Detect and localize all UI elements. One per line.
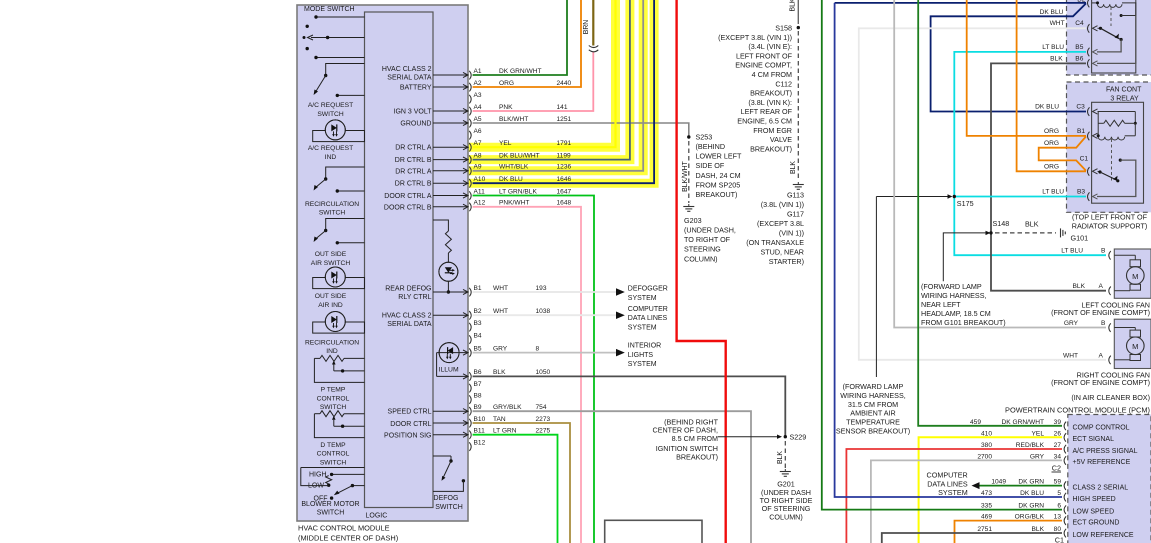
svg-text:(BEHIND: (BEHIND: [696, 142, 726, 151]
svg-text:A8: A8: [474, 152, 482, 159]
svg-text:8.5 CM FROM: 8.5 CM FROM: [672, 434, 718, 443]
wire ORG to relay K2 B1: [967, 0, 1086, 136]
svg-text:AMBIENT AIR: AMBIENT AIR: [850, 409, 895, 418]
svg-text:BLK/WHT: BLK/WHT: [499, 116, 528, 123]
svg-text:(IN AIR CLEANER BOX): (IN AIR CLEANER BOX): [1071, 393, 1150, 402]
P temp control switch potentiometer R1: [314, 357, 320, 359]
svg-text:1236: 1236: [557, 164, 572, 171]
svg-text:1199: 1199: [557, 152, 572, 159]
svg-text:DR CTRL B: DR CTRL B: [395, 157, 432, 164]
svg-text:HIGH SPEED: HIGH SPEED: [1073, 496, 1116, 503]
resistor R3 and LED DS4 to pin B1: [433, 220, 448, 231]
D temp control switch potentiometer R2: [314, 413, 320, 415]
PCM pin HIGH SPEED: [1064, 493, 1066, 502]
splice S175: [953, 195, 956, 198]
svg-text:13: 13: [1054, 514, 1062, 521]
svg-text:2275: 2275: [536, 428, 551, 435]
svg-text:RECIRCULATION: RECIRCULATION: [305, 340, 359, 347]
svg-text:COMP CONTROL: COMP CONTROL: [1073, 425, 1130, 432]
svg-text:B7: B7: [474, 381, 482, 388]
wire A7 YEL 1791: [473, 0, 616, 147]
svg-text:459: 459: [970, 419, 981, 426]
svg-text:410: 410: [981, 430, 992, 437]
svg-text:LT BLU: LT BLU: [1061, 248, 1083, 255]
pin A12: [433, 206, 468, 208]
svg-text:B: B: [1101, 248, 1106, 255]
svg-text:(FORWARD LAMP: (FORWARD LAMP: [921, 282, 982, 291]
wire A4 PNK 141 + inline connector C112: [473, 52, 594, 111]
svg-text:1791: 1791: [557, 140, 572, 147]
wire BLK relay K1 B6 to left fan: [991, 63, 1106, 290]
svg-text:DK GRN: DK GRN: [1018, 479, 1044, 486]
wire WHT relay K1 C4 to right fan: [859, 28, 1106, 360]
svg-text:5: 5: [1057, 490, 1061, 497]
ground G101: [1060, 228, 1062, 237]
svg-text:ORG: ORG: [1044, 128, 1059, 135]
pin B1: [433, 291, 468, 293]
svg-text:(FRONT OF ENGINE COMPT): (FRONT OF ENGINE COMPT): [1051, 378, 1150, 387]
svg-text:REAR DEFOG: REAR DEFOG: [385, 286, 431, 293]
wire B6 BLK 1050 to S229: [473, 376, 786, 436]
wire YEL 410 ECT signal: [919, 437, 1062, 543]
svg-text:DK BLU: DK BLU: [499, 176, 523, 183]
wire ORG jumper B1-C1: [1039, 136, 1086, 170]
wire B5 GRY 8 to interior lights: [473, 352, 616, 354]
svg-text:(EXCEPT 3.8L (VIN 1)): (EXCEPT 3.8L (VIN 1)): [718, 33, 792, 42]
svg-text:80: 80: [1054, 526, 1062, 533]
svg-text:C4: C4: [1075, 20, 1084, 27]
wire DK BLU to relay K1 top pin: [835, 2, 1086, 4]
svg-text:39: 39: [1054, 419, 1062, 426]
svg-text:SWITCH: SWITCH: [435, 504, 463, 511]
svg-text:VALVE: VALVE: [770, 135, 792, 144]
pin B4: [469, 335, 471, 344]
svg-text:BLK: BLK: [1025, 220, 1039, 229]
svg-text:B1: B1: [1077, 128, 1085, 135]
relay K2 switch: [1119, 159, 1122, 162]
svg-text:2273: 2273: [536, 416, 551, 423]
svg-text:B3: B3: [1077, 189, 1085, 196]
svg-text:SYSTEM: SYSTEM: [938, 488, 968, 497]
relay K2 armature: [1111, 139, 1113, 181]
svg-text:PNK/WHT: PNK/WHT: [499, 200, 529, 207]
wire A12 PNK/WHT 1648: [473, 207, 581, 543]
svg-text:A: A: [1099, 352, 1104, 359]
svg-text:WHT: WHT: [1050, 20, 1065, 27]
svg-text:SPEED CTRL: SPEED CTRL: [388, 409, 432, 416]
svg-text:INTERIOR: INTERIOR: [628, 343, 661, 350]
svg-text:DOOR CTRL A: DOOR CTRL A: [384, 193, 432, 200]
svg-text:SYSTEM: SYSTEM: [628, 324, 657, 331]
svg-text:P TEMP: P TEMP: [321, 387, 346, 394]
PCM pin ECT SIGNAL: [1064, 433, 1066, 442]
svg-text:YEL: YEL: [499, 140, 512, 147]
pin A11: [433, 195, 468, 197]
PCM pin +5V REFERENCE: [1064, 456, 1066, 465]
outside air indicator LED DS2: [313, 278, 365, 289]
svg-text:SERIAL DATA: SERIAL DATA: [387, 75, 432, 82]
HVAC control module box: [297, 5, 468, 521]
svg-text:OUT SIDE: OUT SIDE: [315, 251, 347, 258]
PCM pin A/C PRESS SIGNAL: [1064, 445, 1066, 454]
svg-text:HIGH: HIGH: [309, 472, 327, 479]
wire ORG to relay K2 C1: [1017, 0, 1086, 171]
svg-text:(3.4L (VIN E):: (3.4L (VIN E):: [748, 42, 792, 51]
wire A8 DK BLU/WHT 1199: [473, 0, 630, 160]
svg-text:DATA LINES: DATA LINES: [927, 479, 968, 488]
svg-text:SYSTEM: SYSTEM: [628, 295, 657, 302]
relay K1 switch: [1093, 26, 1098, 31]
svg-text:A11: A11: [474, 188, 486, 195]
svg-text:DEFOGGER: DEFOGGER: [628, 286, 668, 293]
svg-text:GRY: GRY: [1064, 320, 1079, 327]
PCM pin ECT GROUND: [1064, 516, 1066, 525]
svg-text:B3: B3: [474, 320, 482, 327]
wire DK GRN 335 low speed: [822, 0, 1062, 510]
svg-text:POWERTRAIN CONTROL MODULE (PCM: POWERTRAIN CONTROL MODULE (PCM): [1005, 406, 1150, 415]
svg-text:YEL: YEL: [1032, 430, 1045, 437]
pin B2: [433, 314, 468, 316]
svg-text:ORG: ORG: [499, 80, 514, 87]
relay K2 FAN CONT 3 RELAY box: [1067, 82, 1151, 212]
svg-text:A: A: [1099, 283, 1104, 290]
svg-text:DK GRN/WHT: DK GRN/WHT: [1002, 419, 1045, 426]
svg-text:RADIATOR SUPPORT): RADIATOR SUPPORT): [1072, 222, 1147, 231]
svg-text:LIGHTS: LIGHTS: [628, 352, 654, 359]
illumination LED DS5 between pins B5 and B6: [437, 352, 468, 354]
svg-text:A7: A7: [474, 140, 482, 147]
svg-text:SWITCH: SWITCH: [320, 459, 347, 466]
svg-text:B1: B1: [474, 285, 482, 292]
svg-text:BLK: BLK: [1032, 526, 1045, 533]
svg-text:193: 193: [536, 285, 547, 292]
svg-text:FROM SP205: FROM SP205: [696, 180, 741, 189]
svg-text:STARTER): STARTER): [769, 257, 804, 266]
svg-text:NEAR LEFT: NEAR LEFT: [921, 300, 961, 309]
svg-text:DK BLU/WHT: DK BLU/WHT: [499, 152, 540, 159]
svg-text:1647: 1647: [557, 188, 572, 195]
svg-text:G101: G101: [1071, 234, 1089, 243]
svg-text:G113: G113: [787, 191, 804, 200]
pin A7: [433, 146, 468, 148]
svg-text:OUT SIDE: OUT SIDE: [315, 293, 347, 300]
svg-text:(TOP LEFT FRONT OF: (TOP LEFT FRONT OF: [1072, 213, 1148, 222]
pin B5: [469, 348, 471, 357]
pin B6: [469, 372, 471, 381]
svg-text:BREAKOUT): BREAKOUT): [750, 89, 792, 98]
pin B10: [433, 422, 468, 424]
svg-text:S148: S148: [993, 219, 1010, 228]
svg-text:WHT/BLK: WHT/BLK: [499, 164, 529, 171]
svg-text:A2: A2: [474, 80, 482, 87]
svg-text:1648: 1648: [557, 200, 572, 207]
pin A6: [469, 131, 471, 140]
svg-text:S175: S175: [957, 199, 974, 208]
splice S148: [989, 231, 992, 234]
svg-text:CONTROL: CONTROL: [317, 451, 350, 458]
svg-text:LOW SPEED: LOW SPEED: [1073, 508, 1115, 515]
module box (cut off, bottom center): [605, 520, 702, 543]
svg-text:POSITION SIG: POSITION SIG: [384, 432, 431, 439]
svg-text:PNK: PNK: [499, 104, 513, 111]
svg-text:TO RIGHT OF: TO RIGHT OF: [684, 235, 731, 244]
svg-text:WIRING HARNESS,: WIRING HARNESS,: [921, 291, 987, 300]
svg-text:BLK: BLK: [790, 161, 797, 174]
svg-text:(FRONT OF ENGINE COMPT): (FRONT OF ENGINE COMPT): [1051, 308, 1150, 317]
svg-text:A5: A5: [474, 116, 482, 123]
PCM box: [1068, 415, 1151, 543]
pin B11: [433, 434, 468, 436]
relay K2 coil + resistor: [1093, 109, 1098, 114]
svg-text:141: 141: [557, 104, 568, 111]
svg-text:1049: 1049: [991, 479, 1006, 486]
ground G203: [683, 206, 694, 208]
svg-text:DR CTRL B: DR CTRL B: [395, 181, 432, 188]
svg-text:DATA LINES: DATA LINES: [628, 315, 668, 322]
PCM pin COMP CONTROL: [1064, 422, 1066, 431]
svg-text:59: 59: [1054, 479, 1062, 486]
svg-text:M: M: [1132, 342, 1138, 351]
svg-text:DR CTRL A: DR CTRL A: [395, 145, 432, 152]
svg-text:STUD, NEAR: STUD, NEAR: [760, 248, 804, 257]
svg-text:380: 380: [981, 442, 992, 449]
svg-text:DK BLU: DK BLU: [1020, 490, 1044, 497]
A/C request indicator LED DS1: [313, 131, 365, 142]
svg-text:DOOR CTRL B: DOOR CTRL B: [384, 204, 432, 211]
svg-text:ENGINE, 6.5 CM: ENGINE, 6.5 CM: [737, 117, 792, 126]
svg-text:S158: S158: [775, 24, 792, 33]
svg-text:1251: 1251: [557, 116, 572, 123]
svg-text:B2: B2: [474, 308, 482, 315]
svg-text:BRN: BRN: [583, 20, 590, 35]
wire ORG/BLK 469 ECT ground: [955, 521, 1063, 543]
svg-text:COLUMN): COLUMN): [684, 254, 718, 263]
svg-text:C1: C1: [1080, 156, 1089, 163]
svg-text:(FORWARD LAMP: (FORWARD LAMP: [843, 382, 904, 391]
A/C request switch S2: [326, 64, 365, 76]
svg-text:M: M: [1132, 272, 1138, 281]
svg-text:6: 6: [1057, 503, 1061, 510]
svg-text:DK BLU: DK BLU: [1040, 9, 1064, 16]
wire LT BLU relay K2 B3: [954, 196, 1086, 198]
svg-text:GRY/BLK: GRY/BLK: [493, 404, 522, 411]
logic block U1: [365, 12, 434, 508]
svg-text:RLY CTRL: RLY CTRL: [398, 294, 431, 301]
pin A10: [433, 182, 468, 184]
highlight band wire A8 DK BLU/WHT: [467, 0, 630, 160]
ground G201: [780, 471, 791, 473]
svg-text:RECIRCULATION: RECIRCULATION: [305, 201, 359, 208]
svg-text:LOW REFERENCE: LOW REFERENCE: [1073, 532, 1134, 539]
svg-text:DK GRN/WHT: DK GRN/WHT: [499, 68, 542, 75]
wire DK GRN 1049 class 2 serial: [980, 485, 1063, 487]
svg-text:LOGIC: LOGIC: [366, 513, 388, 520]
svg-text:B4: B4: [474, 332, 482, 339]
wire A5 BLK/WHT 1251 to S253: [473, 123, 689, 137]
svg-text:8: 8: [536, 345, 540, 352]
pin A3: [469, 95, 471, 104]
svg-text:DK BLU: DK BLU: [1035, 104, 1059, 111]
svg-text:C2: C2: [1052, 464, 1061, 473]
pin B8: [469, 395, 471, 404]
svg-text:A4: A4: [474, 104, 482, 111]
svg-text:ORG: ORG: [1044, 140, 1059, 147]
svg-text:IND: IND: [326, 348, 338, 355]
wire DK GRN/WHT 459 comp control: [918, 0, 1062, 426]
ground G113/G117: [793, 184, 804, 186]
recirculation indicator LED DS3: [313, 322, 365, 333]
svg-text:A1: A1: [474, 68, 482, 75]
wire LT BLU relay K1 B5: [954, 52, 1106, 255]
blower motor switch S5: [301, 467, 365, 469]
pin B3: [469, 323, 471, 332]
PCM pin LOW REFERENCE: [1064, 529, 1066, 538]
svg-text:SENSOR BREAKOUT): SENSOR BREAKOUT): [836, 427, 910, 436]
svg-text:+5V REFERENCE: +5V REFERENCE: [1073, 459, 1131, 466]
wire RED/BLK 380 A/C press signal: [846, 449, 1062, 543]
wire A10 DK BLU 1646: [473, 0, 654, 183]
svg-text:2751: 2751: [977, 526, 992, 533]
left cooling fan motor M1: [1114, 249, 1151, 298]
svg-text:STEERING: STEERING: [684, 245, 721, 254]
svg-text:3 RELAY: 3 RELAY: [1110, 96, 1139, 103]
svg-text:BREAKOUT): BREAKOUT): [696, 190, 738, 199]
highlight band wire A7 YEL: [467, 0, 616, 147]
svg-text:(MIDDLE CENTER OF DASH): (MIDDLE CENTER OF DASH): [298, 534, 398, 543]
svg-text:(3.8L (VIN 1)): (3.8L (VIN 1)): [761, 200, 804, 209]
svg-text:WHT: WHT: [493, 308, 508, 315]
svg-text:1038: 1038: [536, 308, 551, 315]
wire A1 DK GRN/WHT: [473, 0, 567, 75]
relay K1 (top, cut off) box: [1067, 0, 1151, 75]
pin A1: [433, 74, 468, 76]
svg-text:HEADLAMP, 18.5 CM: HEADLAMP, 18.5 CM: [921, 309, 991, 318]
svg-text:BREAKOUT): BREAKOUT): [676, 452, 718, 461]
svg-text:IND: IND: [325, 154, 337, 161]
svg-text:27: 27: [1054, 442, 1062, 449]
svg-text:B5: B5: [1075, 44, 1083, 51]
svg-text:LT GRN/BLK: LT GRN/BLK: [499, 188, 537, 195]
right cooling fan motor M2: [1114, 319, 1151, 368]
svg-text:B10: B10: [474, 416, 486, 423]
svg-text:B6: B6: [474, 369, 482, 376]
svg-text:HVAC CONTROL MODULE: HVAC CONTROL MODULE: [298, 524, 390, 533]
PCM pin LOW SPEED: [1064, 505, 1066, 514]
arrow to interior lights system: [616, 349, 625, 357]
wire B10 TAN 2273: [473, 423, 570, 543]
wire RED vertical: [677, 0, 726, 543]
svg-text:FROM G101 BREAKOUT): FROM G101 BREAKOUT): [921, 318, 1006, 327]
svg-text:SWITCH: SWITCH: [319, 209, 346, 216]
svg-text:(VIN 1)): (VIN 1)): [779, 229, 804, 238]
wire B11 LT GRN 2275: [473, 435, 558, 543]
svg-text:2700: 2700: [977, 453, 992, 460]
relay K1 armature: [1110, 7, 1112, 26]
splice S229: [784, 435, 787, 438]
svg-text:2440: 2440: [557, 80, 572, 87]
svg-text:BLK: BLK: [1073, 283, 1086, 290]
svg-text:(EXCEPT 3.8L: (EXCEPT 3.8L: [757, 219, 804, 228]
svg-text:AIR SWITCH: AIR SWITCH: [311, 260, 351, 267]
svg-text:ORG/BLK: ORG/BLK: [1015, 514, 1045, 521]
svg-text:26: 26: [1054, 430, 1062, 437]
wire BLK 2751 low reference: [882, 533, 1062, 543]
splice S253: [687, 135, 690, 138]
svg-text:B8: B8: [474, 392, 482, 399]
svg-text:TEMPERATURE: TEMPERATURE: [846, 418, 900, 427]
splice S158: [797, 0, 799, 24]
svg-text:LT GRN: LT GRN: [493, 428, 517, 435]
svg-text:A/C REQUEST: A/C REQUEST: [308, 102, 353, 109]
pin A2: [433, 86, 468, 88]
pin A9: [433, 170, 468, 172]
svg-text:C3: C3: [1076, 104, 1085, 111]
svg-text:BLOWER MOTOR: BLOWER MOTOR: [301, 501, 359, 508]
svg-text:HVAC CLASS 2: HVAC CLASS 2: [382, 313, 432, 320]
svg-text:LEFT FRONT OF: LEFT FRONT OF: [736, 51, 793, 60]
svg-text:LT BLU: LT BLU: [1042, 189, 1064, 196]
svg-text:DK GRN: DK GRN: [1018, 503, 1044, 510]
pin A8: [433, 159, 468, 161]
svg-text:WHT: WHT: [493, 285, 508, 292]
pin A5: [433, 122, 468, 124]
svg-text:GRY: GRY: [493, 345, 508, 352]
wire DK BLU 473 high speed: [835, 3, 1062, 497]
svg-text:A/C REQUEST: A/C REQUEST: [308, 145, 353, 152]
svg-text:B12: B12: [474, 439, 486, 446]
svg-text:B9: B9: [474, 404, 482, 411]
svg-text:LT BLU: LT BLU: [1042, 44, 1064, 51]
svg-text:LOWER LEFT: LOWER LEFT: [696, 152, 743, 161]
svg-text:SYSTEM: SYSTEM: [628, 361, 657, 368]
svg-text:ECT GROUND: ECT GROUND: [1073, 519, 1120, 526]
pin B12: [469, 442, 471, 451]
svg-text:A12: A12: [474, 200, 486, 207]
svg-text:LEFT REAR OF: LEFT REAR OF: [741, 107, 793, 116]
svg-text:ORG: ORG: [1044, 164, 1059, 171]
svg-text:BLK: BLK: [1050, 56, 1063, 63]
svg-text:COMPUTER: COMPUTER: [628, 306, 668, 313]
svg-text:DASH, 24 CM: DASH, 24 CM: [696, 171, 741, 180]
svg-text:TAN: TAN: [493, 416, 506, 423]
svg-text:DEFOG: DEFOG: [434, 495, 459, 502]
svg-text:BLK/WHT: BLK/WHT: [682, 160, 689, 191]
svg-text:AIR IND: AIR IND: [318, 302, 343, 309]
svg-text:335: 335: [981, 503, 992, 510]
wire GRY 2700 +5V reference: [871, 460, 1062, 543]
svg-text:SWITCH: SWITCH: [317, 111, 344, 118]
svg-text:SWITCH: SWITCH: [317, 510, 345, 517]
svg-text:A10: A10: [474, 176, 486, 183]
svg-text:S229: S229: [790, 433, 807, 442]
svg-text:A/C PRESS SIGNAL: A/C PRESS SIGNAL: [1073, 448, 1138, 455]
wire GRY to right fan B: [894, 0, 1106, 328]
svg-text:473: 473: [981, 490, 992, 497]
relay K1 coil L1: [1092, 2, 1098, 4]
svg-text:ENGINE COMPT,: ENGINE COMPT,: [735, 61, 792, 70]
wire B2 WHT 1038 to computer data lines: [473, 314, 616, 316]
svg-text:A3: A3: [474, 92, 482, 99]
svg-text:B6: B6: [1075, 56, 1083, 63]
svg-text:4 CM FROM: 4 CM FROM: [752, 70, 792, 79]
svg-text:34: 34: [1054, 453, 1062, 460]
svg-text:BLK: BLK: [790, 0, 797, 12]
svg-text:ECT SIGNAL: ECT SIGNAL: [1073, 436, 1115, 443]
svg-text:C1: C1: [1055, 536, 1064, 543]
wire BRN (above inline connector): [592, 0, 594, 46]
wire B1 WHT 193 to defogger system: [473, 291, 616, 293]
svg-text:SERIAL DATA: SERIAL DATA: [387, 321, 432, 328]
